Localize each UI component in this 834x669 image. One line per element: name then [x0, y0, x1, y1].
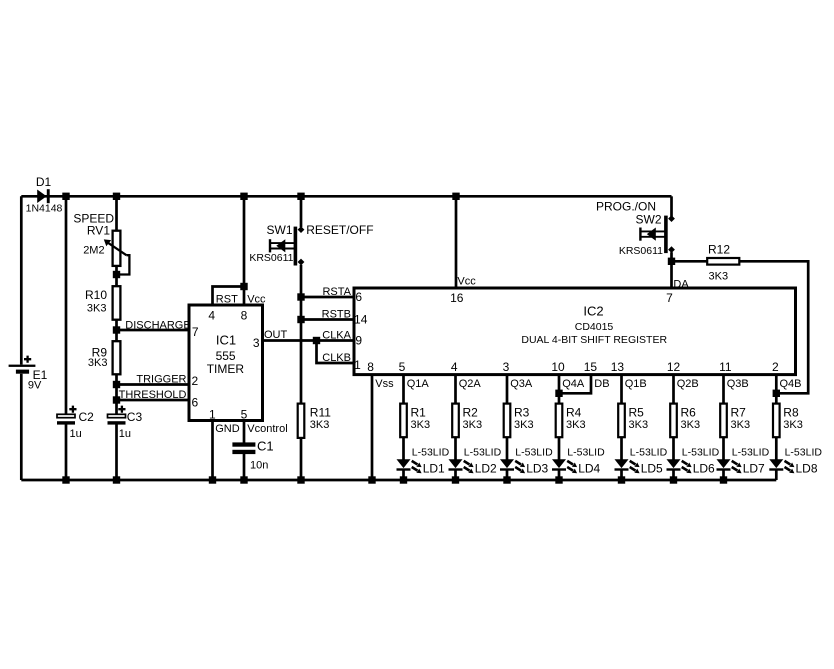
wire CLKB wire: [317, 341, 355, 364]
resistor R9: [113, 341, 121, 374]
svg-text:6: 6: [355, 290, 362, 304]
node node Q4A-DB: [555, 390, 562, 397]
wire LD2 to ground: [454, 471, 457, 481]
wire LD4 to ground: [558, 471, 561, 481]
wire Vss wire: [371, 375, 374, 480]
resistor R3: [504, 404, 511, 438]
wire Vcc to C2: [65, 196, 68, 414]
wire R11 to ground: [300, 438, 303, 480]
svg-text:Vcc: Vcc: [247, 294, 266, 306]
svg-text:8: 8: [367, 360, 374, 374]
resistor R6: [670, 404, 677, 438]
svg-text:RSTA: RSTA: [322, 286, 351, 298]
svg-text:R5: R5: [629, 406, 645, 420]
wire RV1 wiper connection: [117, 255, 130, 274]
LED LD8: [769, 459, 783, 468]
LED LD3: [500, 459, 514, 468]
svg-text:GND: GND: [215, 423, 240, 435]
node node C2-rail: [62, 476, 69, 483]
node SW1 pin top: [298, 226, 305, 233]
wire R12 to Q4B wire: [739, 261, 808, 393]
svg-text:L-53LID: L-53LID: [630, 446, 668, 458]
svg-text:R1: R1: [411, 406, 427, 420]
svg-text:R11: R11: [310, 406, 331, 420]
LED LD7: [717, 459, 731, 468]
wire RSTA wire: [301, 296, 354, 299]
node SW2 pin bottom: [668, 246, 675, 253]
svg-text:6: 6: [191, 395, 198, 409]
svg-text:Q3B: Q3B: [727, 378, 749, 390]
svg-text:R4: R4: [566, 406, 582, 420]
node node GND-rail: [209, 476, 216, 483]
svg-text:LD8: LD8: [796, 462, 818, 476]
wire LD1 to ground: [402, 471, 405, 481]
svg-text:9: 9: [355, 334, 362, 348]
op-amp IC2 CD4015 box: [354, 288, 796, 375]
C2 plus mark: [69, 406, 76, 413]
node node LD2-rail: [452, 476, 459, 483]
svg-text:3: 3: [503, 360, 510, 374]
svg-text:C2: C2: [79, 410, 95, 424]
wire SW2 to DA pin: [670, 252, 673, 288]
svg-text:3K3: 3K3: [411, 419, 431, 431]
wire C2 to ground: [65, 425, 68, 481]
node node C1-rail: [240, 476, 247, 483]
node node LD1-rail: [400, 476, 407, 483]
wire THRESHOLD wire: [117, 399, 190, 402]
svg-text:L-53LID: L-53LID: [732, 446, 770, 458]
svg-text:2M2: 2M2: [83, 245, 104, 257]
svg-text:3K3: 3K3: [87, 303, 107, 315]
svg-text:Q2A: Q2A: [459, 378, 482, 390]
wire SW2 drop from rail: [670, 196, 673, 216]
wire top supply rail: [21, 195, 671, 198]
wire LD6 to ground: [672, 471, 675, 481]
wire C3 to ground: [115, 425, 118, 481]
wire RV1 to R10: [115, 266, 118, 286]
wire Q2A to R2: [454, 375, 457, 404]
svg-text:Q4A: Q4A: [562, 378, 585, 390]
svg-text:SW2: SW2: [635, 213, 661, 227]
svg-text:4: 4: [451, 360, 458, 374]
node node LD6-rail: [670, 476, 677, 483]
svg-text:7: 7: [192, 325, 199, 339]
resistor R5: [618, 404, 625, 438]
wire R5 to LD5: [620, 437, 623, 459]
node node LD3-rail: [503, 476, 510, 483]
svg-text:3K3: 3K3: [310, 419, 330, 431]
wire Q1B to R5: [620, 375, 623, 404]
wire Vcc to RV1: [115, 196, 118, 231]
svg-text:Vss: Vss: [375, 378, 394, 390]
svg-text:SW1: SW1: [266, 223, 292, 237]
svg-text:D1: D1: [36, 175, 52, 189]
svg-text:3K3: 3K3: [629, 419, 649, 431]
svg-text:C1: C1: [257, 439, 274, 454]
LED LD2: [449, 459, 463, 468]
svg-text:9V: 9V: [28, 380, 42, 392]
svg-text:L-53LID: L-53LID: [515, 446, 553, 458]
svg-text:DISCHARGE: DISCHARGE: [125, 319, 190, 331]
wire R9 to C3: [115, 374, 118, 414]
svg-text:1u: 1u: [70, 428, 82, 440]
RV1 wiper arrow: [106, 241, 127, 255]
LED LD4: [552, 459, 566, 468]
wire OUT wire: [263, 339, 317, 342]
node SW2 pin top: [668, 215, 675, 222]
svg-text:Q1A: Q1A: [407, 378, 430, 390]
node node Q4B-R12: [773, 390, 780, 397]
wire RSTB wire: [301, 318, 354, 321]
svg-text:3K3: 3K3: [88, 357, 108, 369]
svg-text:Q2B: Q2B: [677, 378, 699, 390]
svg-text:3: 3: [253, 336, 260, 350]
node node DA-R12: [668, 258, 675, 265]
svg-text:Q1B: Q1B: [625, 378, 647, 390]
svg-text:TRIGGER: TRIGGER: [136, 373, 186, 385]
svg-text:L-53LID: L-53LID: [682, 446, 720, 458]
wire bottom ground rail: [21, 479, 776, 482]
svg-text:L-53LID: L-53LID: [785, 446, 823, 458]
svg-text:1: 1: [354, 358, 361, 372]
wire Q2B to R6: [672, 375, 675, 404]
capacitor C3: [108, 414, 126, 417]
node node Vcc-RV1: [113, 193, 120, 200]
wire R10 to R9: [115, 320, 118, 342]
switch SW2: [664, 216, 668, 254]
svg-text:1: 1: [209, 407, 216, 421]
svg-text:3K3: 3K3: [681, 419, 701, 431]
svg-text:R8: R8: [783, 406, 799, 420]
svg-text:RSTB: RSTB: [322, 309, 351, 321]
wire Q4A to R4: [558, 375, 561, 404]
node node LD7-rail: [720, 476, 727, 483]
svg-text:12: 12: [667, 360, 681, 374]
node node R11-rail: [297, 476, 304, 483]
svg-text:OUT: OUT: [264, 329, 288, 341]
svg-text:IC2: IC2: [583, 303, 603, 318]
node RV1 wiper node: [113, 271, 120, 278]
capacitor C2: [57, 414, 75, 417]
LED LD1: [397, 459, 411, 468]
node node C3-rail: [113, 476, 120, 483]
svg-text:R7: R7: [731, 406, 747, 420]
svg-text:14: 14: [354, 313, 368, 327]
svg-text:555: 555: [216, 349, 236, 363]
node node LD4-rail: [555, 476, 562, 483]
svg-text:10n: 10n: [250, 460, 268, 472]
svg-text:5: 5: [241, 407, 248, 421]
wire R1 to LD1: [402, 437, 405, 459]
node node RSTA: [297, 293, 304, 300]
svg-text:R10: R10: [85, 288, 107, 302]
svg-text:CD4015: CD4015: [575, 321, 614, 333]
svg-text:15: 15: [584, 360, 598, 374]
resistor R7: [720, 404, 727, 438]
LED LD6: [667, 459, 681, 468]
wire IC1 GND wire: [211, 421, 214, 481]
node node OUT-CLK: [313, 337, 320, 344]
svg-text:L-53LID: L-53LID: [464, 446, 502, 458]
node node RST-Vcc: [240, 283, 247, 290]
wire LD3 to ground: [506, 471, 509, 481]
wire battery to ground rail: [20, 374, 23, 480]
svg-text:KRS0611: KRS0611: [249, 252, 293, 264]
node SW1 pin bottom: [298, 259, 305, 266]
svg-text:3K3: 3K3: [514, 419, 534, 431]
resistor R11: [298, 404, 305, 438]
wire R4 to LD4: [558, 437, 561, 459]
svg-text:R3: R3: [514, 406, 530, 420]
capacitor C1: [232, 442, 255, 454]
battery plus mark: [24, 356, 31, 363]
svg-text:L-53LID: L-53LID: [412, 446, 450, 458]
LED LD5: [615, 459, 629, 468]
svg-text:C3: C3: [127, 410, 143, 424]
resistor R10: [113, 286, 121, 320]
wire LD8 to ground: [775, 471, 778, 481]
wire Q1A to R1: [402, 375, 405, 404]
node node Vcc-SW1: [297, 193, 304, 200]
svg-text:3K3: 3K3: [463, 419, 483, 431]
wire IC1 RST stub: [213, 287, 245, 306]
svg-text:Q3A: Q3A: [510, 378, 533, 390]
svg-text:KRS0611: KRS0611: [619, 245, 663, 257]
svg-text:Vcc: Vcc: [457, 275, 476, 287]
resistor R8: [773, 404, 780, 438]
wire CLKA wire: [317, 339, 355, 342]
wire IC2 Vcc wire: [455, 196, 458, 288]
svg-text:3K3: 3K3: [566, 419, 586, 431]
diode D1: [37, 189, 50, 203]
wire SW1 upper wire: [300, 196, 303, 227]
svg-text:Q4B: Q4B: [780, 378, 802, 390]
svg-text:L-53LID: L-53LID: [567, 446, 605, 458]
svg-text:CLKA: CLKA: [322, 329, 351, 341]
svg-text:3K3: 3K3: [731, 419, 751, 431]
resistor R2: [452, 404, 459, 438]
wire Q3B to R7: [722, 375, 725, 404]
svg-text:3K3: 3K3: [783, 419, 803, 431]
wire R7 to LD7: [722, 437, 725, 459]
svg-text:16: 16: [450, 291, 464, 305]
wire LD5 to ground: [620, 471, 623, 481]
node node LD5-rail: [618, 476, 625, 483]
wire Q3A to R3: [506, 375, 509, 404]
wire R3 to LD3: [506, 437, 509, 459]
svg-text:R2: R2: [463, 406, 479, 420]
node DISCHARGE node: [113, 326, 120, 333]
svg-text:CLKB: CLKB: [322, 352, 351, 364]
svg-text:LD2: LD2: [475, 462, 497, 476]
wire R8 to LD8: [775, 437, 778, 459]
svg-text:LD5: LD5: [641, 462, 663, 476]
resistor R1: [400, 404, 407, 438]
svg-text:LD3: LD3: [526, 462, 548, 476]
wire R12 left wire: [672, 260, 708, 263]
svg-text:RESET/OFF: RESET/OFF: [306, 223, 373, 237]
wire DB link wire: [559, 375, 591, 394]
wire IC1 Vcc wire: [243, 196, 246, 305]
node node Vcc-IC2: [452, 193, 459, 200]
wire C1 to ground: [243, 454, 246, 480]
wire IC1 Vcontrol to C1: [243, 421, 246, 444]
svg-text:R12: R12: [708, 243, 730, 257]
wire Q4B to R8: [775, 375, 778, 404]
svg-text:DB: DB: [594, 378, 609, 390]
potentiometer RV1: [113, 231, 121, 266]
svg-text:DUAL 4-BIT SHIFT REGISTER: DUAL 4-BIT SHIFT REGISTER: [521, 334, 667, 346]
svg-text:2: 2: [191, 374, 198, 388]
svg-text:7: 7: [666, 291, 673, 305]
node node Vcc-IC1: [240, 193, 247, 200]
svg-text:13: 13: [611, 360, 625, 374]
svg-text:R6: R6: [681, 406, 697, 420]
switch SW1: [294, 227, 298, 266]
resistor R12: [707, 258, 739, 265]
wire LD7 to ground: [722, 471, 725, 481]
svg-text:1N4148: 1N4148: [26, 203, 63, 215]
wire DISCHARGE wire: [117, 329, 190, 332]
svg-text:1u: 1u: [119, 428, 131, 440]
svg-text:LD4: LD4: [578, 462, 600, 476]
node THRESHOLD node: [113, 396, 120, 403]
svg-text:LD7: LD7: [743, 462, 765, 476]
op-amp IC1 555 timer box: [189, 305, 263, 421]
battery E1: [9, 365, 36, 374]
node node Vss-rail: [368, 476, 375, 483]
svg-text:PROG./ON: PROG./ON: [596, 200, 656, 214]
node node Vcc-C2: [62, 193, 69, 200]
svg-text:Vcontrol: Vcontrol: [247, 423, 287, 435]
svg-text:5: 5: [399, 360, 406, 374]
svg-text:TIMER: TIMER: [207, 362, 245, 376]
svg-text:LD6: LD6: [693, 462, 715, 476]
svg-text:3K3: 3K3: [709, 270, 729, 282]
svg-text:THRESHOLD: THRESHOLD: [119, 389, 187, 401]
wire R2 to LD2: [454, 437, 457, 459]
node TRIGGER node: [113, 381, 120, 388]
svg-text:10: 10: [551, 360, 565, 374]
resistor R4: [556, 404, 563, 438]
wire TRIGGER wire: [117, 383, 190, 386]
svg-text:LD1: LD1: [423, 462, 445, 476]
svg-text:8: 8: [241, 308, 248, 322]
C3 plus mark: [118, 406, 125, 413]
svg-text:11: 11: [719, 360, 732, 374]
svg-text:4: 4: [208, 308, 215, 322]
wire left rail to battery: [20, 196, 23, 364]
wire R6 to LD6: [672, 437, 675, 459]
svg-text:IC1: IC1: [216, 333, 236, 348]
node node RSTB: [297, 316, 304, 323]
wire SW1 to R11: [300, 265, 303, 404]
svg-text:RV1: RV1: [87, 224, 110, 238]
svg-text:2: 2: [772, 360, 779, 374]
svg-text:RST: RST: [216, 294, 238, 306]
